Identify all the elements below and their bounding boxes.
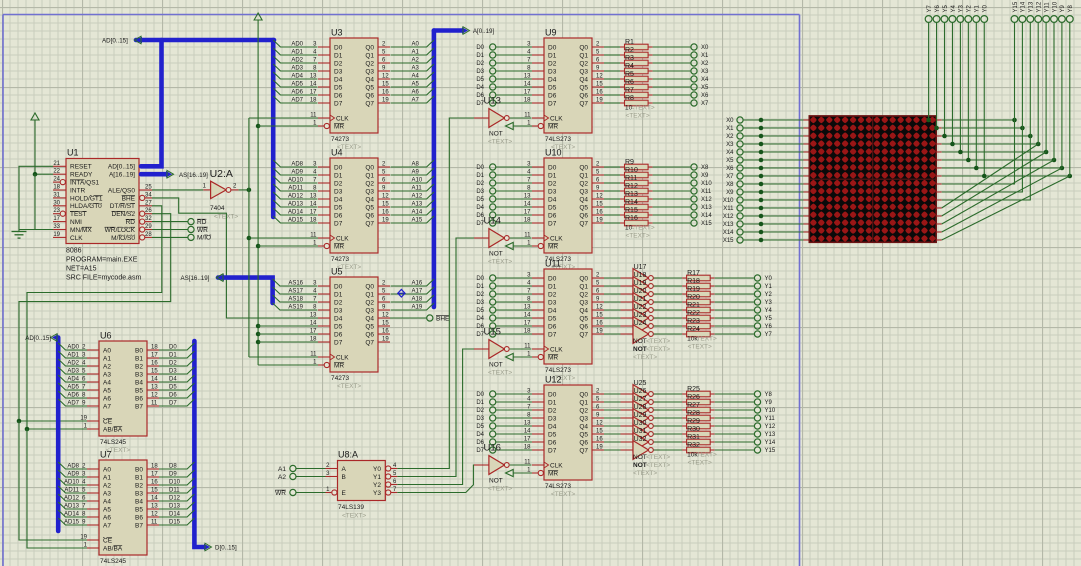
svg-text:U12: U12 <box>545 375 562 385</box>
svg-text:U3: U3 <box>331 28 343 38</box>
transceiver U6 body <box>80 331 159 455</box>
svg-text:Y0: Y0 <box>765 276 773 282</box>
svg-text:D2: D2 <box>548 407 557 414</box>
svg-text:X7: X7 <box>701 101 709 107</box>
svg-text:12: 12 <box>382 194 389 200</box>
wire AD10 bus tap U67 <box>58 478 87 486</box>
svg-text:A7: A7 <box>103 522 111 529</box>
bus D[0..15] right of U6/U7 <box>194 341 237 552</box>
svg-text:30: 30 <box>53 200 60 206</box>
wire A6 to A bus <box>391 88 434 96</box>
svg-text:16: 16 <box>382 90 389 96</box>
bus drop to U1 AD pin <box>141 40 162 166</box>
svg-text:R31: R31 <box>687 434 700 441</box>
svg-text:Q0: Q0 <box>579 275 588 282</box>
svg-text:E: E <box>342 490 347 497</box>
wire AD9 bus tap U67 <box>58 470 87 478</box>
terminal D5 U10 <box>476 196 532 203</box>
svg-text:A0: A0 <box>103 347 111 354</box>
svg-text:Q3: Q3 <box>365 68 374 75</box>
svg-text:D6: D6 <box>548 92 557 99</box>
inverter U22 <box>604 304 660 328</box>
wire AD6 bus tap U67 <box>58 391 87 399</box>
svg-text:18: 18 <box>151 464 158 470</box>
terminal D1 U11 <box>476 283 532 290</box>
svg-text:TEST: TEST <box>70 211 87 218</box>
svg-text:CLK: CLK <box>336 354 349 361</box>
resistor R8 <box>604 95 691 106</box>
svg-text:Q3: Q3 <box>579 299 588 306</box>
svg-text:U32: U32 <box>634 436 647 443</box>
svg-text:16: 16 <box>596 321 603 327</box>
terminal D0 U9 <box>476 44 532 51</box>
svg-text:AD[0..15]: AD[0..15] <box>102 38 128 45</box>
svg-text:MR: MR <box>548 243 558 250</box>
svg-text:MR: MR <box>334 123 344 130</box>
svg-text:NOT: NOT <box>633 346 647 353</box>
resistor pack value <box>687 452 717 467</box>
svg-text:D0: D0 <box>548 164 557 171</box>
wire U15 out to U11 CLK <box>510 348 532 350</box>
svg-text:D4: D4 <box>334 196 343 203</box>
inverter U18 <box>604 272 660 296</box>
svg-text:U20: U20 <box>634 288 647 295</box>
terminal WR in <box>275 489 325 496</box>
resistor R12 <box>604 183 691 194</box>
ground symbol <box>12 230 27 239</box>
terminal D5 U9 <box>476 76 532 83</box>
svg-text:13: 13 <box>310 313 317 319</box>
terminal Y6 top <box>933 4 941 22</box>
svg-text:D3: D3 <box>334 188 343 195</box>
wire DT/R net to AB/BA pins <box>25 206 162 548</box>
svg-text:CLK: CLK <box>550 462 563 469</box>
svg-text:17: 17 <box>151 472 158 478</box>
wire A4 to A bus <box>391 72 434 80</box>
svg-text:D2: D2 <box>476 181 484 187</box>
wire AD8 bus tap <box>273 160 317 168</box>
svg-text:U19: U19 <box>634 280 647 287</box>
svg-text:17: 17 <box>53 216 60 222</box>
svg-text:R25: R25 <box>687 386 700 393</box>
wire matrix row 6 to Y column <box>942 23 1064 171</box>
svg-text:D7: D7 <box>334 220 343 227</box>
svg-text:R22: R22 <box>687 310 700 317</box>
svg-text:B1: B1 <box>135 474 143 481</box>
inverter U16 NOT <box>474 443 512 493</box>
terminal D7 U9 <box>476 100 532 107</box>
svg-text:<TEXT>: <TEXT> <box>488 139 512 146</box>
resistor R23 <box>654 318 755 329</box>
svg-text:Q6: Q6 <box>579 439 588 446</box>
svg-text:AD13: AD13 <box>288 202 304 208</box>
terminal Y12 top <box>1035 1 1043 22</box>
svg-text:RD: RD <box>126 219 136 226</box>
svg-text:Q5: Q5 <box>579 204 588 211</box>
terminal D2 U10 <box>476 180 532 187</box>
svg-text:AD14: AD14 <box>288 210 304 216</box>
svg-text:Q3: Q3 <box>579 188 588 195</box>
svg-text:Q1: Q1 <box>365 291 374 298</box>
svg-text:AD12: AD12 <box>64 496 80 502</box>
svg-text:A5: A5 <box>103 387 111 394</box>
svg-text:AD0: AD0 <box>291 42 303 48</box>
svg-text:<TEXT>: <TEXT> <box>488 259 512 266</box>
svg-text:U2:A: U2:A <box>210 168 233 180</box>
inverter U30 <box>604 420 660 444</box>
wire DEN net to CE pins <box>17 214 171 540</box>
svg-text:NOT: NOT <box>489 362 503 369</box>
svg-text:NOT: NOT <box>633 338 647 345</box>
wire Y1 to U14 <box>397 238 489 477</box>
svg-text:15: 15 <box>382 82 389 88</box>
svg-text:D12: D12 <box>169 496 181 502</box>
svg-text:D5: D5 <box>476 197 484 203</box>
svg-text:X15: X15 <box>701 221 712 227</box>
wire AD11 bus tap U67 <box>58 486 87 494</box>
svg-text:19: 19 <box>53 232 60 238</box>
terminal D3 U11 <box>476 299 532 306</box>
svg-text:M/IO: M/IO <box>197 235 211 242</box>
terminal Y2 <box>754 291 772 298</box>
terminal X11 <box>691 188 712 195</box>
svg-text:U24: U24 <box>634 320 647 327</box>
svg-text:D4: D4 <box>476 205 484 211</box>
svg-text:Y11: Y11 <box>1044 2 1050 13</box>
svg-text:11: 11 <box>151 520 158 526</box>
svg-text:Q1: Q1 <box>579 283 588 290</box>
resistor R20 <box>654 294 755 305</box>
svg-text:A2: A2 <box>278 474 286 481</box>
wire A16 to A bus <box>391 279 434 287</box>
svg-text:74273: 74273 <box>331 136 349 143</box>
svg-text:Q6: Q6 <box>365 331 374 338</box>
svg-text:D3: D3 <box>476 300 484 306</box>
svg-text:D4: D4 <box>548 307 557 314</box>
svg-text:D3: D3 <box>548 415 557 422</box>
resistor R7 <box>604 87 691 98</box>
svg-text:X6: X6 <box>726 166 734 172</box>
svg-text:A4: A4 <box>103 498 111 505</box>
svg-text:U23: U23 <box>634 312 647 319</box>
svg-text:B4: B4 <box>135 379 143 386</box>
terminal X14 matrix side <box>723 229 809 236</box>
svg-text:D3: D3 <box>476 69 484 75</box>
wire A12 to A bus <box>391 192 434 200</box>
svg-text:D2: D2 <box>334 60 343 67</box>
svg-text:R10: R10 <box>625 167 638 174</box>
resistor R15 <box>604 207 691 218</box>
resistor R19 <box>654 286 755 297</box>
terminal X5 <box>691 84 709 91</box>
svg-text:B3: B3 <box>135 490 143 497</box>
wire A7 to A bus <box>391 96 434 104</box>
svg-text:D3: D3 <box>334 68 343 75</box>
svg-text:D3: D3 <box>548 68 557 75</box>
svg-text:U21: U21 <box>634 296 647 303</box>
wire matrix row 2 to Y column <box>942 23 1033 139</box>
wire AS18 bus tap <box>273 295 318 303</box>
svg-text:Q0: Q0 <box>365 283 374 290</box>
svg-text:HLDA/GT0: HLDA/GT0 <box>70 203 102 210</box>
terminal D6 U12 <box>476 439 532 446</box>
wire A2 to A bus <box>391 56 434 64</box>
terminal Y1 top <box>973 4 981 22</box>
svg-text:A1: A1 <box>412 50 420 56</box>
wire CLK rail <box>247 118 318 357</box>
svg-text:A6: A6 <box>103 395 111 402</box>
svg-text:A17: A17 <box>412 289 423 295</box>
wire D3 to D bus <box>159 367 194 375</box>
svg-text:X12: X12 <box>723 214 734 220</box>
inverter U25 <box>604 380 660 404</box>
svg-text:B0: B0 <box>135 347 143 354</box>
svg-text:INTA/QS1: INTA/QS1 <box>70 180 100 187</box>
wire Y3 to U16 <box>397 465 489 493</box>
resistor R16 <box>604 215 691 226</box>
terminal X13 <box>691 204 712 211</box>
wire A17 to A bus <box>391 287 434 295</box>
wire AD13 bus tap <box>273 200 317 208</box>
svg-text:D6: D6 <box>334 92 343 99</box>
terminal D3 U9 <box>476 68 532 75</box>
svg-text:MR: MR <box>334 362 344 369</box>
svg-text:12: 12 <box>382 313 389 319</box>
wire AD8 bus tap U67 <box>58 462 87 470</box>
svg-text:U31: U31 <box>634 428 647 435</box>
svg-text:<TEXT>: <TEXT> <box>626 113 650 120</box>
resistor R5 <box>604 71 691 82</box>
svg-text:Q0: Q0 <box>365 44 374 51</box>
latch U3 body <box>310 28 390 152</box>
svg-text:U6: U6 <box>100 331 112 341</box>
svg-text:U26: U26 <box>634 388 647 395</box>
svg-text:Q2: Q2 <box>365 180 374 187</box>
inverter U28 <box>604 404 660 428</box>
svg-text:15: 15 <box>596 429 603 435</box>
resistor R10 <box>604 167 691 178</box>
wire MN/MX to ground <box>19 229 53 231</box>
wire D7 to D bus <box>159 399 194 407</box>
svg-text:D4: D4 <box>548 76 557 83</box>
svg-text:Q4: Q4 <box>365 196 374 203</box>
svg-text:B2: B2 <box>135 482 143 489</box>
svg-text:<TEXT>: <TEXT> <box>646 462 670 469</box>
svg-text:Y12: Y12 <box>765 424 776 430</box>
latch U5 body <box>310 267 390 391</box>
latch U11 body <box>524 259 604 383</box>
svg-text:B2: B2 <box>135 363 143 370</box>
terminal X7 matrix side <box>726 173 809 180</box>
terminal D2 U12 <box>476 407 532 414</box>
svg-text:A13: A13 <box>412 202 423 208</box>
svg-text:R17: R17 <box>687 270 700 277</box>
svg-text:U29: U29 <box>634 412 647 419</box>
svg-text:D0: D0 <box>476 45 484 51</box>
svg-text:U27: U27 <box>634 396 647 403</box>
svg-text:NOT: NOT <box>489 131 503 138</box>
svg-text:A3: A3 <box>412 66 420 72</box>
wire A19 to A bus <box>391 303 434 311</box>
svg-text:A2: A2 <box>103 482 111 489</box>
svg-text:X3: X3 <box>701 69 709 75</box>
svg-text:AD6: AD6 <box>67 393 79 399</box>
svg-text:D2: D2 <box>334 299 343 306</box>
svg-text:X14: X14 <box>723 230 734 236</box>
svg-text:X7: X7 <box>726 174 734 180</box>
svg-text:Q4: Q4 <box>579 307 588 314</box>
wire D13 to D bus <box>159 502 194 510</box>
svg-text:RD: RD <box>197 219 207 226</box>
wire AD4 bus tap <box>273 72 317 80</box>
terminal Y11 top <box>1043 2 1051 23</box>
resistor R28 <box>654 410 755 421</box>
resistor R18 <box>654 278 755 289</box>
svg-text:WR: WR <box>197 227 208 234</box>
wire A1 to A bus <box>391 48 434 56</box>
resistor R9 <box>604 159 691 170</box>
svg-text:26: 26 <box>145 208 152 214</box>
resistor R1 <box>604 39 691 50</box>
svg-text:D1: D1 <box>548 52 557 59</box>
svg-text:NOT: NOT <box>489 478 503 485</box>
svg-text:Y2: Y2 <box>373 482 381 489</box>
wire D4 to D bus <box>159 375 194 383</box>
svg-text:D0: D0 <box>476 276 484 282</box>
terminal D7 U12 <box>476 447 532 454</box>
svg-text:A9: A9 <box>412 170 420 176</box>
svg-text:U13: U13 <box>484 96 501 107</box>
svg-text:D5: D5 <box>548 204 557 211</box>
resistor R22 <box>654 310 755 321</box>
bus A[0..19] vertical <box>434 27 495 307</box>
svg-text:Y7: Y7 <box>765 332 773 338</box>
svg-text:D5: D5 <box>476 424 484 430</box>
svg-text:R23: R23 <box>687 318 700 325</box>
svg-text:BHE: BHE <box>436 315 450 322</box>
terminal Y5 <box>754 315 772 322</box>
wire MR rail <box>256 124 318 365</box>
svg-text:AD[0..15]: AD[0..15] <box>25 335 51 342</box>
svg-text:D7: D7 <box>548 220 557 227</box>
svg-text:14: 14 <box>151 377 158 383</box>
svg-text:R14: R14 <box>625 199 638 206</box>
terminal X11 matrix side <box>723 205 809 212</box>
terminal X8 <box>691 164 709 171</box>
terminal X9 <box>691 172 709 179</box>
svg-text:AD15: AD15 <box>288 218 304 224</box>
svg-text:AB/BA: AB/BA <box>103 545 123 552</box>
svg-text:R24: R24 <box>687 326 700 333</box>
terminal D1 U10 <box>476 172 532 179</box>
svg-text:<TEXT>: <TEXT> <box>626 233 650 240</box>
wire AD1 bus tap U67 <box>58 351 87 359</box>
svg-text:U15: U15 <box>484 327 501 338</box>
svg-text:21: 21 <box>53 161 60 167</box>
svg-text:Y7: Y7 <box>927 4 933 12</box>
inverter U26 <box>604 388 660 412</box>
wire matrix row 0 to Y column <box>926 23 1017 123</box>
svg-text:Q4: Q4 <box>365 315 374 322</box>
svg-text:D6: D6 <box>334 212 343 219</box>
svg-text:A16: A16 <box>412 281 423 287</box>
terminal D0 U11 <box>476 275 532 282</box>
wire D1 to D bus <box>159 351 194 359</box>
svg-text:Q1: Q1 <box>579 52 588 59</box>
wire D12 to D bus <box>159 494 194 502</box>
svg-text:CLK: CLK <box>336 235 349 242</box>
svg-text:U28: U28 <box>634 404 647 411</box>
svg-text:U14: U14 <box>484 216 501 227</box>
svg-text:Q6: Q6 <box>579 92 588 99</box>
svg-text:D1: D1 <box>476 400 484 406</box>
wire matrix row 3 to Y column <box>942 23 1041 147</box>
wire AD9 bus tap <box>273 168 317 176</box>
svg-text:D0: D0 <box>548 391 557 398</box>
svg-text:74LS139: 74LS139 <box>338 504 364 511</box>
svg-text:A4: A4 <box>412 74 420 80</box>
svg-text:NOT: NOT <box>633 454 647 461</box>
wire U2 output to CLK rail <box>231 188 252 193</box>
terminal D7 U11 <box>476 331 532 338</box>
svg-text:MN/MX: MN/MX <box>70 227 92 234</box>
terminal D5 U12 <box>476 423 532 430</box>
svg-text:X11: X11 <box>701 189 712 195</box>
svg-text:D2: D2 <box>334 180 343 187</box>
svg-text:B7: B7 <box>135 522 143 529</box>
svg-text:AD2: AD2 <box>67 361 79 367</box>
svg-text:X11: X11 <box>723 206 734 212</box>
svg-text:Y3: Y3 <box>959 4 965 12</box>
svg-text:A7: A7 <box>412 98 420 104</box>
svg-text:R7: R7 <box>625 87 634 94</box>
wire D11 to D bus <box>159 486 194 494</box>
svg-text:19: 19 <box>596 445 603 451</box>
svg-text:12: 12 <box>151 512 158 518</box>
terminal D6 U11 <box>476 323 532 330</box>
wire D5 to D bus <box>159 383 194 391</box>
svg-text:X1: X1 <box>726 126 734 132</box>
processor U1 8086 <box>53 148 152 282</box>
terminal Y4 <box>754 307 772 314</box>
svg-text:D6: D6 <box>169 393 177 399</box>
latch U4 body <box>310 148 390 272</box>
svg-text:D2: D2 <box>476 61 484 67</box>
marker blue diamond <box>398 289 405 297</box>
wire READY junction <box>33 172 53 230</box>
MR arrow terminal U11 <box>506 353 533 360</box>
terminal Y8 <box>754 391 772 398</box>
svg-text:A: A <box>342 466 347 473</box>
svg-text:R26: R26 <box>687 394 700 401</box>
svg-text:A2: A2 <box>412 58 420 64</box>
svg-text:D6: D6 <box>548 323 557 330</box>
terminal D4 U11 <box>476 315 532 322</box>
svg-text:Y12: Y12 <box>1037 1 1043 12</box>
power arrow P1 <box>31 113 39 174</box>
resistor R3 <box>604 55 691 66</box>
svg-text:X15: X15 <box>723 238 734 244</box>
svg-text:Q1: Q1 <box>579 172 588 179</box>
resistor R17 <box>654 270 755 281</box>
svg-text:<TEXT>: <TEXT> <box>337 383 361 390</box>
svg-text:R18: R18 <box>687 278 700 285</box>
svg-text:AS[16..19]: AS[16..19] <box>179 172 208 179</box>
svg-text:D0: D0 <box>476 165 484 171</box>
svg-text:Y8: Y8 <box>1068 4 1074 12</box>
wire AD14 bus tap <box>273 208 317 216</box>
wire A3 to A bus <box>391 64 434 72</box>
